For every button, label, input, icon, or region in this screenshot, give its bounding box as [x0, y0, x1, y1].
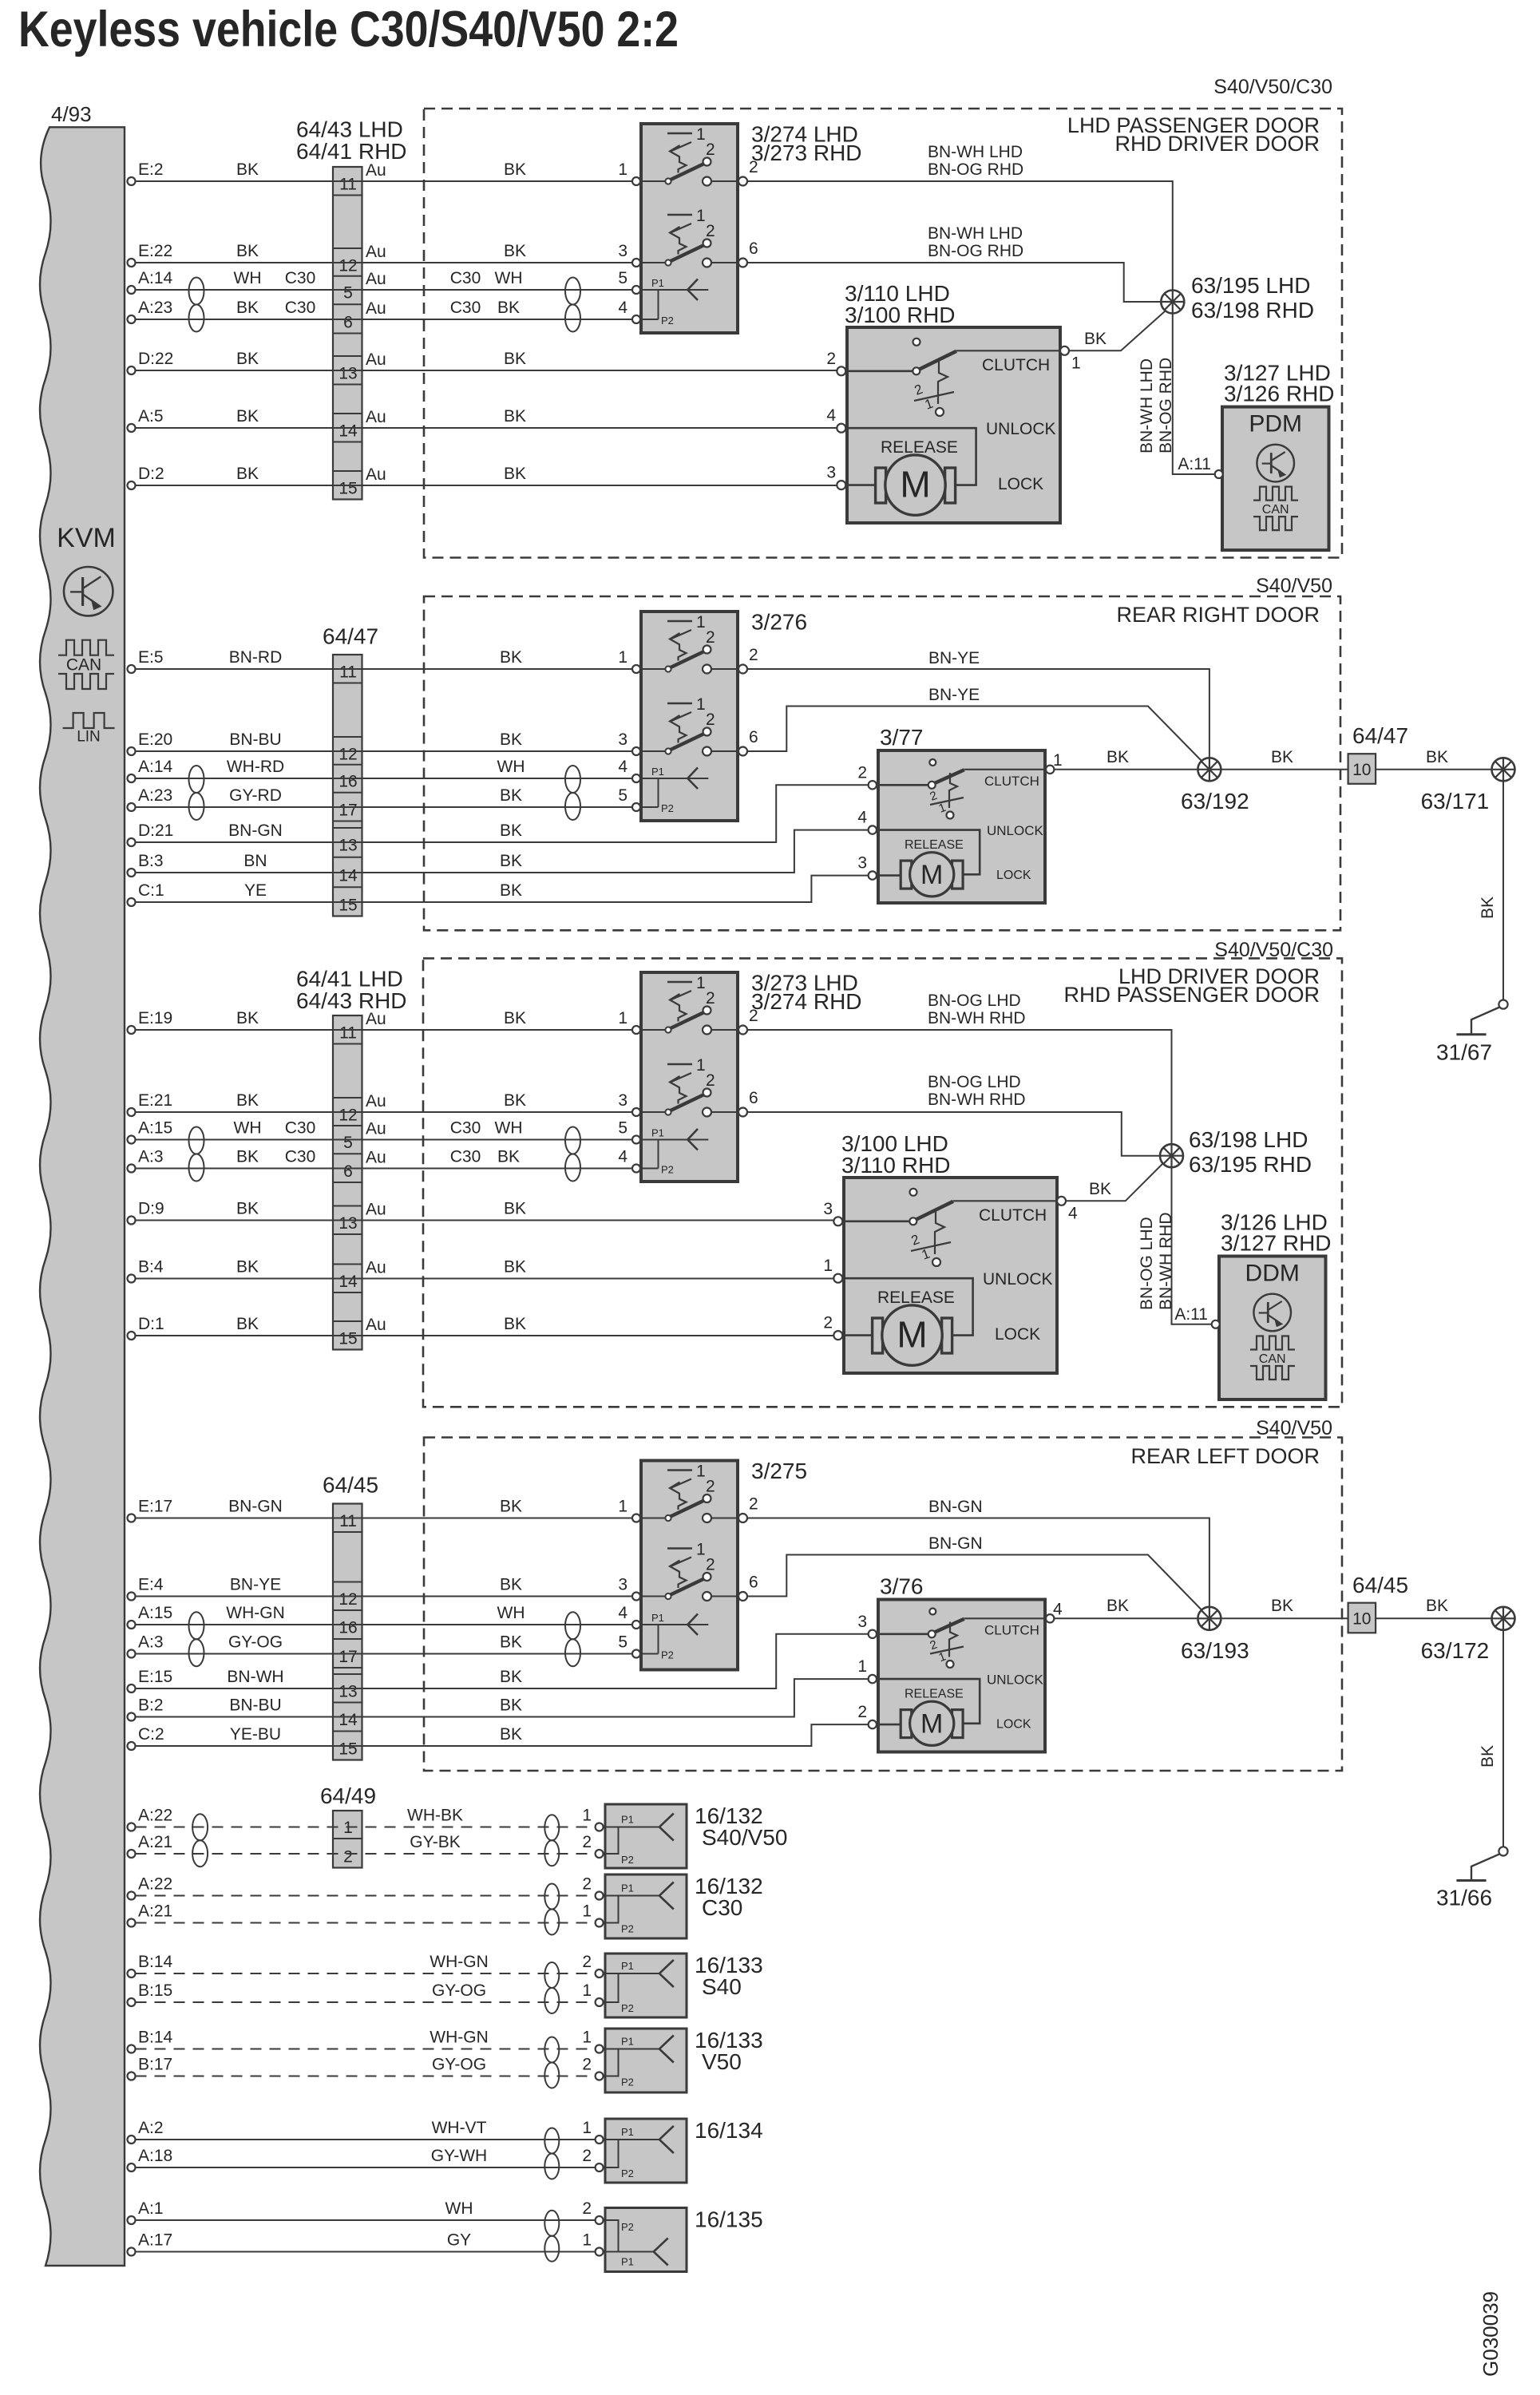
svg-text:REAR LEFT DOOR: REAR LEFT DOOR	[1130, 1444, 1320, 1468]
lock switch 16/133 internal wiring	[605, 1973, 659, 1974]
node A:2 pin	[128, 2136, 136, 2144]
svg-text:C30: C30	[285, 299, 316, 317]
lock motor unit 3/100-3/110 body	[844, 1178, 1057, 1373]
svg-text:BN-OG LHD: BN-OG LHD	[1138, 1217, 1156, 1310]
svg-text:BK: BK	[500, 1576, 522, 1594]
wire BN-GN switch 3/275 pin2 to junction 63/193	[747, 1518, 1209, 1619]
svg-text:BN-BU: BN-BU	[229, 730, 281, 749]
node A:22 pin	[128, 1892, 136, 1900]
connector 64/45 body	[333, 1504, 362, 1760]
svg-text:10: 10	[1352, 1609, 1371, 1628]
svg-text:12: 12	[338, 257, 357, 275]
switch 3/273-3/274 position sensor P1/P2	[641, 1139, 708, 1141]
connector 64/45 inline	[1348, 1603, 1376, 1633]
svg-text:BN-OG RHD: BN-OG RHD	[1157, 358, 1175, 453]
node E:19 pin	[128, 1026, 136, 1034]
svg-text:Au: Au	[366, 1316, 386, 1334]
node A:15 pin	[128, 1621, 136, 1629]
door switch unit 3/275 body	[641, 1461, 738, 1670]
svg-text:GY-OG: GY-OG	[228, 1633, 283, 1652]
svg-text:BN-WH RHD: BN-WH RHD	[928, 1009, 1025, 1027]
twisted pair A:15/A:3 right section4	[565, 1612, 580, 1639]
svg-text:BK: BK	[500, 852, 522, 870]
svg-text:M: M	[920, 860, 943, 890]
wire B:3 section2	[136, 830, 869, 873]
svg-text:1: 1	[618, 1498, 627, 1516]
wire C:1 section2	[136, 876, 869, 902]
svg-text:64/43 LHD: 64/43 LHD	[296, 117, 403, 142]
svg-text:BK: BK	[504, 407, 526, 426]
svg-text:1: 1	[618, 648, 627, 667]
wire BK junction 63/171 down to ground 31/67	[1502, 781, 1504, 1000]
svg-text:S40/V50: S40/V50	[1256, 1417, 1332, 1439]
switch 3/275 output pins	[738, 1514, 747, 1522]
svg-text:WH-RD: WH-RD	[227, 758, 284, 776]
svg-text:P2: P2	[661, 1164, 674, 1176]
svg-text:D:9: D:9	[138, 1200, 164, 1218]
svg-text:WH: WH	[234, 269, 262, 287]
svg-text:BK: BK	[500, 1668, 522, 1686]
KVM LIN bus symbol	[63, 713, 115, 728]
node D:9 pin	[128, 1217, 136, 1225]
svg-text:BK: BK	[236, 160, 259, 179]
svg-text:6: 6	[343, 314, 353, 332]
svg-text:BK: BK	[1271, 748, 1293, 766]
wire A:23 section2	[136, 806, 632, 808]
svg-text:BN: BN	[243, 852, 267, 870]
svg-text:B:14: B:14	[138, 1953, 173, 1971]
svg-text:63/192: 63/192	[1181, 789, 1249, 814]
svg-text:BK: BK	[504, 160, 526, 179]
svg-text:M: M	[900, 464, 930, 505]
svg-text:13: 13	[338, 1214, 357, 1233]
wire A:2 bottom row5	[136, 2139, 596, 2140]
svg-text:RELEASE: RELEASE	[905, 838, 964, 852]
svg-text:P1: P1	[621, 1882, 634, 1894]
svg-text:C30: C30	[285, 1119, 316, 1138]
svg-text:WH-GN: WH-GN	[226, 1604, 284, 1622]
switch 3/274-3/273 output pins	[738, 177, 747, 186]
wire BN-GN switch 3/275 pin6 to junction 63/193	[747, 1555, 1202, 1611]
svg-text:P2: P2	[621, 2167, 634, 2179]
svg-text:B:17: B:17	[138, 2056, 172, 2074]
lock motor unit 3/77 body	[878, 750, 1045, 903]
svg-text:5: 5	[343, 284, 353, 303]
junction 63/198-63/195	[1160, 1144, 1183, 1167]
svg-text:3/126 RHD: 3/126 RHD	[1224, 382, 1335, 406]
svg-text:BN-OG LHD: BN-OG LHD	[928, 1073, 1021, 1091]
svg-text:BK: BK	[504, 1258, 526, 1277]
svg-text:A:2: A:2	[138, 2119, 164, 2137]
svg-text:BK: BK	[504, 1200, 526, 1218]
svg-text:BK: BK	[1107, 1597, 1129, 1615]
svg-text:Au: Au	[366, 1201, 386, 1219]
connector 64/49 body	[333, 1811, 362, 1868]
svg-text:2: 2	[582, 2199, 592, 2218]
svg-text:1: 1	[696, 695, 706, 714]
svg-text:16/134: 16/134	[695, 2118, 763, 2143]
node B:14 pin	[128, 1969, 136, 1977]
svg-text:BN-OG RHD: BN-OG RHD	[928, 160, 1023, 179]
svg-text:BN-YE: BN-YE	[928, 649, 980, 667]
svg-text:BK: BK	[236, 1148, 259, 1166]
svg-text:GY-OG: GY-OG	[432, 2056, 486, 2074]
svg-text:P1: P1	[621, 2256, 634, 2268]
wire BN-OG from switch 3/273 pin6 to junction 63/198	[747, 1112, 1160, 1156]
switch contact in 3/275 at y=1901.5	[667, 1469, 692, 1471]
node E:4 pin	[128, 1593, 136, 1601]
svg-text:BK: BK	[500, 821, 522, 840]
node B:14 pin	[128, 2045, 136, 2053]
svg-text:BN-GN: BN-GN	[228, 821, 283, 840]
svg-text:WH-BK: WH-BK	[407, 1807, 463, 1825]
svg-text:Au: Au	[366, 270, 386, 288]
svg-text:Au: Au	[366, 1092, 386, 1110]
svg-text:BK: BK	[1271, 1597, 1293, 1615]
switch contact in 3/274-3/273 at y=329	[667, 214, 692, 216]
svg-text:BK: BK	[504, 1091, 526, 1110]
svg-text:BK: BK	[500, 786, 522, 805]
node B:15 pin	[128, 1998, 136, 2006]
wire BN-YE switch 3/276 pin2 to junction 63/192	[747, 669, 1209, 770]
twisted pair A:14/A:23 right section1	[565, 278, 580, 305]
svg-text:11: 11	[339, 663, 357, 682]
svg-text:4: 4	[618, 758, 627, 776]
svg-text:P2: P2	[661, 1649, 674, 1661]
svg-text:64/41 LHD: 64/41 LHD	[296, 967, 403, 992]
svg-text:BN-GN: BN-GN	[228, 1498, 283, 1516]
svg-text:RHD PASSENGER DOOR: RHD PASSENGER DOOR	[1063, 983, 1320, 1007]
dashed box 4 REAR LEFT DOOR	[424, 1438, 1342, 1772]
lock motor 3/76 pins	[869, 1630, 877, 1638]
wire A:21 bottom row2	[136, 1922, 596, 1924]
svg-text:63/195 LHD: 63/195 LHD	[1191, 273, 1310, 298]
svg-text:P1: P1	[621, 2126, 634, 2138]
svg-text:14: 14	[338, 1711, 358, 1729]
lock motor 3/110-3/100 pins	[837, 366, 845, 375]
svg-text:1: 1	[582, 2119, 592, 2137]
svg-text:3/110 RHD: 3/110 RHD	[841, 1153, 950, 1178]
wire BK junction 63/193 to connector 64/45	[1209, 1617, 1348, 1619]
svg-text:LOCK: LOCK	[995, 1325, 1040, 1344]
svg-text:63/195 RHD: 63/195 RHD	[1189, 1152, 1312, 1177]
twisted pair right row6	[544, 2211, 559, 2236]
switch 3/276 input pins	[632, 665, 640, 673]
twisted pair right row3	[544, 1962, 559, 1988]
svg-text:A:23: A:23	[138, 299, 172, 317]
svg-text:C30: C30	[285, 269, 316, 287]
junction 63/193	[1198, 1607, 1221, 1630]
svg-text:P2: P2	[621, 2221, 634, 2233]
node A:17 pin	[128, 2248, 136, 2256]
wire E:15 section4	[136, 1634, 869, 1688]
svg-text:12: 12	[338, 1590, 357, 1609]
lock cylinder switch 16/132 body	[605, 1804, 687, 1868]
svg-text:Au: Au	[366, 161, 386, 180]
svg-text:6: 6	[749, 239, 758, 258]
door switch unit 3/273-3/274 body	[641, 972, 738, 1182]
lock switch 16/134 pins	[596, 2136, 604, 2144]
svg-text:B:4: B:4	[138, 1258, 164, 1277]
svg-text:3: 3	[618, 1091, 627, 1110]
ground 31/66	[1498, 1847, 1507, 1855]
KVM transistor symbol	[64, 567, 113, 616]
lock cylinder switch 16/134 body	[605, 2119, 687, 2183]
svg-text:REAR RIGHT DOOR: REAR RIGHT DOOR	[1116, 603, 1320, 627]
svg-text:C30: C30	[702, 1895, 742, 1920]
svg-text:P1: P1	[621, 2036, 634, 2048]
svg-text:E:5: E:5	[138, 648, 164, 667]
svg-text:GY-OG: GY-OG	[432, 1981, 486, 2000]
switch 3/275 position sensor P1/P2	[641, 1624, 708, 1625]
svg-text:1: 1	[582, 2231, 592, 2250]
svg-text:E:22: E:22	[138, 242, 172, 260]
switch contact in 3/274-3/273 at y=227	[667, 133, 692, 135]
svg-text:BK: BK	[504, 465, 526, 483]
svg-text:3/276: 3/276	[751, 610, 807, 635]
wire BK junction 63/192 to connector 64/47	[1209, 769, 1348, 770]
svg-text:3: 3	[857, 1613, 867, 1631]
switch contact in 3/273-3/274 at y=1290	[667, 981, 692, 984]
svg-text:P1: P1	[651, 766, 664, 778]
dashed box 3 LHD DRIVER DOOR / RHD PASSENGER DOOR	[423, 958, 1342, 1407]
svg-text:Au: Au	[366, 299, 386, 318]
lock motor unit 3/110-3/100 body	[847, 327, 1060, 523]
svg-text:BN-OG LHD: BN-OG LHD	[928, 992, 1021, 1010]
svg-text:64/49: 64/49	[320, 1783, 376, 1808]
svg-text:BK: BK	[1084, 330, 1107, 348]
svg-text:E:17: E:17	[138, 1498, 172, 1516]
svg-text:C30: C30	[450, 1119, 481, 1138]
wire B:14 bottom row3	[136, 1973, 596, 1974]
svg-text:64/43 RHD: 64/43 RHD	[296, 988, 407, 1013]
svg-text:1: 1	[696, 1541, 706, 1559]
svg-text:WH-VT: WH-VT	[432, 2119, 487, 2137]
svg-text:D:21: D:21	[138, 821, 173, 840]
svg-text:14: 14	[338, 867, 358, 885]
svg-text:BN-YE: BN-YE	[230, 1576, 281, 1594]
svg-text:BN-WH LHD: BN-WH LHD	[928, 224, 1023, 243]
svg-text:A:15: A:15	[138, 1604, 172, 1622]
svg-text:A:22: A:22	[138, 1875, 172, 1894]
module DDM pin A:11	[1212, 1320, 1220, 1328]
svg-text:2: 2	[706, 711, 715, 729]
lock switch 16/133 internal wiring	[605, 2049, 659, 2050]
svg-text:BK: BK	[236, 1200, 259, 1218]
svg-text:6: 6	[749, 1574, 758, 1592]
svg-text:63/171: 63/171	[1421, 789, 1490, 814]
connector 64/43-64/41 body	[333, 167, 362, 500]
lock switch 16/133 pins	[596, 2045, 604, 2053]
svg-text:A:23: A:23	[138, 786, 172, 805]
svg-text:15: 15	[338, 897, 357, 915]
wire D:9 section3	[136, 1220, 834, 1221]
svg-text:3/273 RHD: 3/273 RHD	[751, 141, 862, 165]
wire junction 63/198 down to DDM A:11	[1172, 1166, 1212, 1324]
svg-text:64/41 RHD: 64/41 RHD	[296, 139, 407, 164]
svg-text:P1: P1	[621, 1814, 634, 1826]
svg-text:BN-WH RHD: BN-WH RHD	[928, 1091, 1025, 1109]
lock cylinder switch 16/133 body	[605, 1954, 687, 2017]
svg-text:3/77: 3/77	[880, 725, 924, 750]
svg-text:DDM: DDM	[1245, 1261, 1300, 1287]
twisted pair A:14/A:23 left section2	[189, 766, 204, 793]
twisted pair right row5	[544, 2128, 559, 2154]
svg-text:4: 4	[618, 1148, 627, 1166]
node C:1 pin	[128, 898, 136, 906]
svg-text:BK: BK	[236, 1258, 259, 1277]
svg-text:WH: WH	[497, 1604, 525, 1622]
svg-text:CLUTCH: CLUTCH	[982, 356, 1050, 374]
wire BK connector 64/47 to junction 63/171	[1376, 769, 1491, 770]
svg-text:A:15: A:15	[138, 1119, 172, 1138]
svg-text:C30: C30	[285, 1148, 316, 1166]
svg-text:64/47: 64/47	[323, 624, 378, 649]
wire E:19 section3	[136, 1029, 632, 1031]
svg-text:A:21: A:21	[138, 1902, 172, 1921]
wire BN-WH from switch 3/274 pin2 to junction 63/195	[747, 181, 1173, 302]
svg-text:2: 2	[749, 1007, 758, 1025]
wire D:1 section3	[136, 1335, 834, 1336]
wire A:14 section2	[136, 778, 632, 779]
module DDM transistor symbol	[1253, 1294, 1291, 1332]
svg-text:5: 5	[618, 269, 627, 287]
svg-text:6: 6	[749, 1089, 758, 1107]
svg-text:2: 2	[749, 1495, 758, 1514]
wire A:18 bottom row5	[136, 2167, 596, 2168]
svg-text:WH-GN: WH-GN	[430, 1953, 488, 1971]
svg-text:BN-BU: BN-BU	[229, 1696, 281, 1715]
svg-text:S40/V50: S40/V50	[702, 1825, 787, 1850]
node B:2 pin	[128, 1713, 136, 1721]
svg-text:1: 1	[696, 125, 706, 144]
wire E:2 section1	[136, 180, 632, 182]
svg-text:LOCK: LOCK	[998, 475, 1043, 493]
svg-text:Au: Au	[366, 408, 386, 426]
svg-text:D:2: D:2	[138, 465, 164, 483]
svg-text:BN-WH: BN-WH	[227, 1668, 283, 1686]
wire B:2 section4	[136, 1679, 869, 1716]
svg-text:4/93: 4/93	[51, 102, 92, 126]
node E:15 pin	[128, 1684, 136, 1692]
svg-text:31/67: 31/67	[1436, 1040, 1492, 1065]
module DDM CAN symbol	[1250, 1336, 1295, 1350]
svg-text:2: 2	[826, 350, 836, 368]
svg-text:5: 5	[618, 1633, 627, 1652]
svg-text:BN-RD: BN-RD	[229, 648, 283, 667]
svg-text:4: 4	[1053, 1600, 1063, 1618]
junction 63/172	[1492, 1607, 1515, 1630]
svg-text:BK: BK	[236, 1315, 259, 1333]
lock motor 3/100-3/110 clutch switch	[910, 1189, 917, 1196]
svg-text:3/76: 3/76	[880, 1574, 924, 1599]
control module KVM 4/93	[40, 127, 125, 2266]
svg-text:4: 4	[826, 406, 836, 425]
junction 63/171	[1492, 758, 1515, 781]
svg-text:CLUTCH: CLUTCH	[984, 774, 1039, 789]
svg-text:UNLOCK: UNLOCK	[987, 823, 1044, 838]
dashed box 2 REAR RIGHT DOOR	[424, 596, 1340, 930]
svg-text:1: 1	[823, 1257, 833, 1275]
svg-text:B:3: B:3	[138, 852, 164, 870]
wire D:21 section2	[136, 785, 869, 842]
lock motor 3/77 release wiring	[878, 830, 980, 875]
switch 3/276 position sensor P1/P2	[641, 778, 708, 779]
svg-text:2: 2	[857, 763, 867, 782]
wire B:4 section3	[136, 1278, 834, 1280]
svg-text:6: 6	[749, 728, 758, 746]
node B:3 pin	[128, 869, 136, 877]
svg-text:E:15: E:15	[138, 1668, 172, 1686]
svg-text:1: 1	[696, 207, 706, 225]
svg-text:G030039: G030039	[1479, 2291, 1502, 2377]
svg-text:A:14: A:14	[138, 269, 173, 287]
svg-text:RELEASE: RELEASE	[905, 1688, 964, 1701]
svg-text:GY-RD: GY-RD	[229, 786, 282, 805]
svg-text:3: 3	[826, 464, 836, 482]
wire A:22 bottom row1	[136, 1827, 596, 1828]
wire A:15 section4	[136, 1624, 632, 1625]
svg-text:CAN: CAN	[1259, 1352, 1286, 1366]
node A:1 pin	[128, 2216, 136, 2224]
lock switch 16/135 internal wiring	[605, 2220, 619, 2252]
lock switch 16/132 pins	[596, 1823, 604, 1831]
lock cylinder switch 16/132 body	[605, 1874, 687, 1938]
twisted pair right row4	[544, 2037, 559, 2063]
lock motor 3/77 pins	[869, 781, 877, 789]
lock cylinder switch 16/133 body	[605, 2029, 687, 2092]
svg-text:BK: BK	[1479, 1745, 1497, 1768]
node D:1 pin	[128, 1332, 136, 1340]
svg-text:2: 2	[582, 1875, 592, 1894]
dashed box 1 LHD PASSENGER DOOR / RHD DRIVER DOOR	[424, 109, 1342, 558]
module PDM pin A:11	[1215, 470, 1223, 478]
twisted pair A:15/A:3 right section3	[565, 1127, 580, 1154]
svg-text:2: 2	[857, 1703, 867, 1721]
svg-text:CLUTCH: CLUTCH	[979, 1206, 1047, 1225]
node E:5 pin	[128, 665, 136, 673]
svg-text:16/135: 16/135	[695, 2207, 763, 2232]
svg-text:WH: WH	[445, 2199, 473, 2218]
svg-text:C30: C30	[450, 299, 481, 317]
svg-text:BK: BK	[500, 1725, 522, 1744]
svg-text:1: 1	[696, 1463, 706, 1481]
lock switch 16/132 pins	[596, 1892, 604, 1900]
svg-text:E:4: E:4	[138, 1576, 164, 1594]
KVM CAN bus symbol	[58, 640, 114, 655]
svg-text:WH: WH	[495, 269, 523, 287]
svg-text:Keyless vehicle C30/S40/V50 2:: Keyless vehicle C30/S40/V50 2:2	[18, 2, 679, 57]
svg-text:BK: BK	[1089, 1180, 1111, 1198]
svg-text:12: 12	[338, 746, 357, 764]
svg-text:4: 4	[618, 299, 627, 317]
svg-text:3: 3	[618, 242, 627, 260]
svg-text:BK: BK	[500, 648, 522, 667]
connector 64/47 inline	[1348, 754, 1376, 784]
node A:23 pin	[128, 315, 136, 323]
switch 3/273-3/274 input pins	[632, 1026, 640, 1034]
svg-text:V50: V50	[702, 2049, 742, 2074]
svg-text:BK: BK	[236, 1091, 259, 1110]
svg-text:5: 5	[343, 1134, 353, 1152]
svg-text:63/193: 63/193	[1181, 1638, 1249, 1663]
node D:2 pin	[128, 481, 136, 489]
lock motor 3/110-3/100 motor M	[876, 468, 886, 503]
wire C:2 section4	[136, 1724, 869, 1746]
svg-text:A:11: A:11	[1174, 1305, 1208, 1324]
node B:17 pin	[128, 2072, 136, 2080]
node C:2 pin	[128, 1742, 136, 1750]
